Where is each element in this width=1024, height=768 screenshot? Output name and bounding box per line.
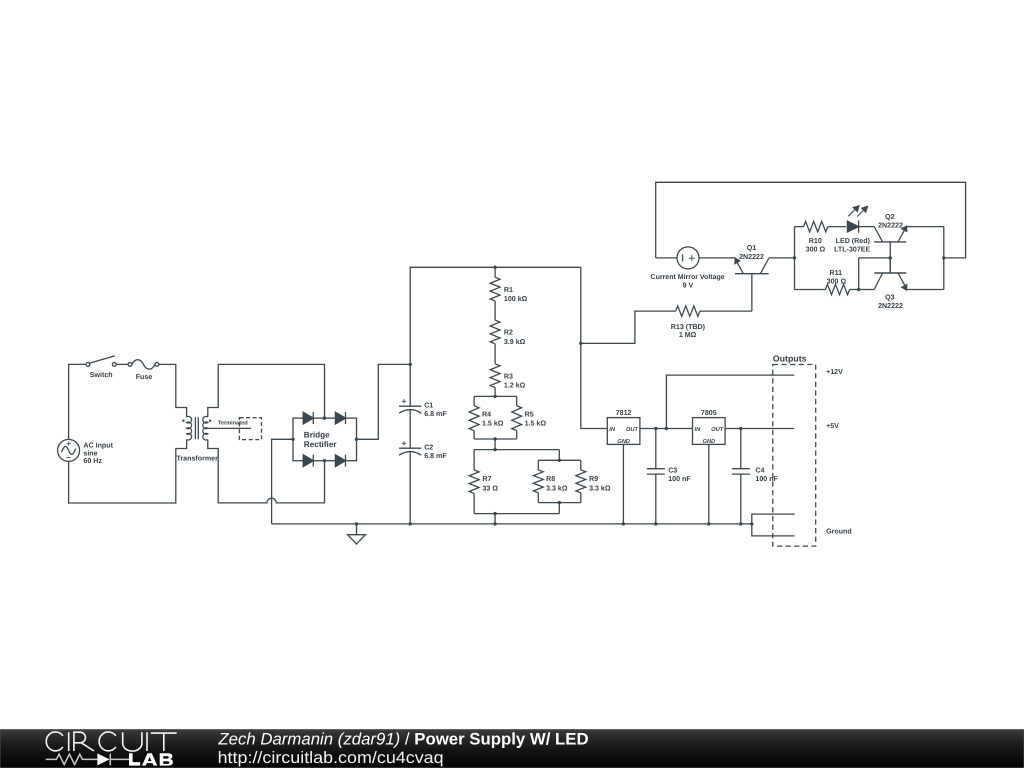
label R1 100 k bbox=[504, 286, 528, 303]
svg-text:1.5 kΩ: 1.5 kΩ bbox=[482, 420, 504, 428]
wire cap rail middle bbox=[409, 410, 411, 449]
svg-text:Fuse: Fuse bbox=[136, 373, 153, 381]
resistor R13 bbox=[676, 306, 700, 316]
label R11 300 bbox=[827, 269, 847, 286]
node bridge top bbox=[323, 416, 326, 419]
svg-text:R9: R9 bbox=[589, 475, 598, 483]
svg-text:+5V: +5V bbox=[826, 422, 839, 430]
label R2 3.9 k bbox=[504, 329, 526, 346]
LED arrows bbox=[848, 206, 867, 217]
wire R89 top edge bbox=[538, 459, 581, 461]
capacitor C2 bbox=[399, 441, 421, 455]
svg-text:3.9 kΩ: 3.9 kΩ bbox=[504, 338, 526, 346]
wire source left bbox=[656, 257, 677, 259]
svg-text:6.8 mF: 6.8 mF bbox=[424, 452, 447, 460]
node R89 top bbox=[558, 459, 561, 462]
node base join bbox=[889, 256, 892, 259]
node R89 bottom bbox=[558, 501, 561, 504]
svg-text:Outputs: Outputs bbox=[773, 354, 807, 364]
resistor R3 bbox=[490, 364, 500, 388]
label Fuse bbox=[136, 373, 153, 381]
svg-text:GND: GND bbox=[617, 439, 630, 445]
svg-text:100 nF: 100 nF bbox=[668, 475, 691, 483]
svg-text:GND: GND bbox=[702, 439, 715, 445]
label Q1 2N2222 bbox=[739, 244, 764, 261]
node C4 tap bbox=[739, 427, 742, 430]
svg-text:+12V: +12V bbox=[826, 368, 843, 376]
svg-text:100 nF: 100 nF bbox=[755, 475, 778, 483]
svg-text:Q3: Q3 bbox=[885, 293, 895, 301]
label R7 33 bbox=[482, 475, 498, 492]
node cap rail on ground rail bbox=[409, 522, 412, 525]
svg-text:R2: R2 bbox=[504, 329, 513, 337]
svg-text:Q2: Q2 bbox=[885, 213, 895, 221]
label Bridge Rectifier bbox=[304, 431, 338, 449]
node top rail R1 bbox=[493, 266, 496, 269]
transistor Q3 bbox=[874, 258, 907, 290]
wire mirror left rail bbox=[794, 227, 796, 290]
wire emitter rail bbox=[943, 227, 945, 290]
svg-text:R7: R7 bbox=[482, 475, 491, 483]
wire 7812 out to 7805 in bbox=[640, 428, 693, 430]
node C3 tap bbox=[654, 427, 657, 430]
bridge diode D2 bbox=[335, 412, 345, 424]
svg-text:1.2 kΩ: 1.2 kΩ bbox=[504, 382, 526, 390]
wire AC top to switch bbox=[69, 364, 86, 439]
svg-text:R3: R3 bbox=[504, 372, 513, 380]
svg-text:3.3 kΩ: 3.3 kΩ bbox=[546, 484, 568, 492]
fuse F1 bbox=[128, 360, 159, 369]
wire R11 to bases bbox=[859, 257, 891, 259]
wire R3 to node bbox=[494, 388, 496, 397]
node rail R7net bbox=[493, 522, 496, 525]
svg-text:IN: IN bbox=[695, 427, 702, 433]
svg-text:300 Ω: 300 Ω bbox=[827, 278, 847, 286]
svg-text:Terminated: Terminated bbox=[218, 419, 248, 426]
label R9 3.3 k bbox=[589, 475, 611, 492]
label R4 1.5 k bbox=[482, 410, 504, 427]
wire Q2 emitter bbox=[906, 226, 944, 228]
svg-text:C1: C1 bbox=[424, 401, 433, 409]
svg-text:300 Ω: 300 Ω bbox=[806, 246, 826, 254]
wire R2-R3 bbox=[494, 344, 496, 364]
svg-text:1 MΩ: 1 MΩ bbox=[679, 331, 697, 339]
wire 7812 gnd bbox=[622, 444, 624, 524]
svg-text:2N2222: 2N2222 bbox=[878, 302, 903, 310]
logo resistor-diode symbol bbox=[46, 754, 129, 766]
node emitter join bbox=[942, 256, 945, 259]
pin IN 7812 bbox=[609, 427, 616, 433]
transformer polarity dot secondary bbox=[209, 420, 211, 422]
label Ground bbox=[826, 528, 852, 536]
node 12V riser tap bbox=[665, 427, 668, 430]
node rail C4 bbox=[739, 522, 742, 525]
wire secondary bottom to bridge with hop bbox=[208, 440, 325, 503]
svg-text:OUT: OUT bbox=[626, 427, 639, 433]
outputs dashed box bbox=[773, 365, 816, 547]
resistor R8 bbox=[533, 460, 543, 502]
node bridge right bbox=[355, 438, 358, 441]
voltage source V2 current mirror bbox=[677, 247, 699, 269]
pin IN 7805 bbox=[695, 427, 702, 433]
label R10 300 bbox=[806, 237, 826, 254]
wire Q1 collector out bbox=[769, 257, 795, 259]
wire R1-R2 bbox=[494, 301, 496, 320]
svg-text:Transformer: Transformer bbox=[176, 455, 218, 463]
bridge diode D1 bbox=[303, 412, 313, 424]
switch SW1 bbox=[86, 356, 116, 366]
wire ground output fork bbox=[752, 514, 795, 536]
bridge rectifier outline bbox=[293, 418, 357, 461]
svg-text:R4: R4 bbox=[482, 410, 491, 418]
node R7 net top bbox=[493, 448, 496, 451]
svg-text:R10: R10 bbox=[809, 237, 822, 245]
node R13 branch bbox=[579, 342, 582, 345]
svg-text:7805: 7805 bbox=[701, 409, 717, 417]
svg-text:Current Mirror Voltage: Current Mirror Voltage bbox=[651, 273, 725, 281]
svg-text:9 V: 9 V bbox=[683, 282, 694, 290]
node rail end bbox=[750, 522, 753, 525]
capacitor C1 bbox=[399, 399, 421, 413]
svg-text:http://circuitlab.com/cu4cvaq: http://circuitlab.com/cu4cvaq bbox=[218, 749, 444, 767]
svg-text:AC Input: AC Input bbox=[83, 441, 113, 449]
label Switch bbox=[90, 371, 113, 379]
svg-text:R13 (TBD): R13 (TBD) bbox=[671, 323, 706, 331]
svg-text:Q1: Q1 bbox=[747, 244, 757, 252]
bridge diode D3 bbox=[303, 455, 313, 467]
svg-text:C3: C3 bbox=[668, 466, 677, 474]
transformer T1 secondary coil bbox=[203, 416, 208, 440]
svg-text:R8: R8 bbox=[546, 475, 555, 483]
svg-text:1.5 kΩ: 1.5 kΩ bbox=[525, 420, 547, 428]
svg-text:60 Hz: 60 Hz bbox=[83, 457, 102, 465]
logo LAB bbox=[129, 753, 173, 765]
svg-text:2N2222: 2N2222 bbox=[878, 222, 903, 230]
node R4R5 bottom bbox=[493, 437, 496, 440]
label C4 100 nF bbox=[755, 466, 778, 483]
svg-text:Bridge: Bridge bbox=[304, 431, 330, 440]
voltage source V1 AC Input bbox=[58, 439, 80, 461]
wire bridge left to ground rail bbox=[272, 439, 293, 524]
label AC Input sine 60 Hz bbox=[83, 441, 113, 465]
node R11 corner bbox=[857, 288, 860, 291]
svg-text:100 kΩ: 100 kΩ bbox=[504, 295, 528, 303]
label Outputs bbox=[773, 354, 807, 364]
regulator 7805 box bbox=[693, 418, 726, 445]
wire 12V output bbox=[666, 375, 794, 428]
wire fuse to transformer primary bbox=[159, 364, 187, 417]
wire R7net bottom bbox=[474, 513, 559, 515]
wire 7805 gnd bbox=[708, 444, 710, 524]
resistor R9 bbox=[576, 460, 586, 502]
resistor R11 bbox=[795, 284, 859, 294]
wire cap rail lower bbox=[409, 452, 411, 524]
svg-text:33 Ω: 33 Ω bbox=[482, 484, 498, 492]
resistor R2 bbox=[490, 320, 500, 344]
label 7805 bbox=[701, 409, 717, 417]
svg-text:Ground: Ground bbox=[826, 528, 852, 536]
label +5V bbox=[826, 422, 839, 430]
resistor R4 bbox=[469, 396, 479, 439]
label R13 TBD 1M bbox=[671, 323, 706, 339]
node R7net bottom bbox=[493, 512, 496, 515]
pin OUT 7805 bbox=[711, 427, 724, 433]
label C1 6.8 mF bbox=[424, 401, 447, 418]
label Current Mirror Voltage 9V bbox=[651, 273, 725, 289]
wire Q3 emitter bbox=[906, 289, 944, 291]
pin OUT 7812 bbox=[626, 427, 639, 433]
node rail 7805gnd bbox=[707, 522, 710, 525]
node rail C3 bbox=[654, 522, 657, 525]
wire source to Q1 bbox=[699, 257, 735, 259]
capacitor C3 bbox=[647, 429, 665, 524]
node rail ground sym bbox=[355, 522, 358, 525]
node mirror left bbox=[793, 256, 796, 259]
wire bridge right to cap rail bbox=[357, 364, 411, 439]
wire mirror loop top bbox=[656, 182, 966, 258]
pin GND 7805 bbox=[702, 439, 715, 445]
node rail 7812gnd bbox=[622, 522, 625, 525]
node bridge bottom bbox=[323, 459, 326, 462]
wire feed rail down bbox=[581, 267, 608, 428]
label LED Red LTL-307EE bbox=[834, 237, 870, 254]
svg-text:LTL-307EE: LTL-307EE bbox=[834, 246, 870, 254]
svg-text:6.8 mF: 6.8 mF bbox=[424, 410, 447, 418]
wire 7805 out to 5V bbox=[725, 428, 794, 430]
label 7812 bbox=[616, 409, 632, 417]
transistor Q1 bbox=[735, 258, 769, 311]
resistor R5 bbox=[512, 396, 522, 439]
label R8 3.3 k bbox=[546, 475, 568, 492]
node cap rail top feed bbox=[409, 363, 412, 366]
transistor Q2 bbox=[874, 226, 907, 273]
capacitor C4 bbox=[732, 429, 750, 524]
wire R11 to Q3 bbox=[859, 289, 875, 291]
svg-text:LED (Red): LED (Red) bbox=[836, 237, 871, 245]
wire R4R5 to R7 net bbox=[494, 439, 496, 450]
svg-text:R5: R5 bbox=[525, 410, 534, 418]
wire cap rail upper bbox=[410, 267, 581, 406]
LED D5 LTL-307EE bbox=[847, 220, 874, 232]
transformer polarity dot primary bbox=[182, 420, 184, 422]
wire R4R5 bottom bbox=[474, 438, 517, 440]
resistor R10 bbox=[795, 221, 847, 231]
regulator 7812 box bbox=[607, 418, 640, 445]
pin GND 7812 bbox=[617, 439, 630, 445]
label +12V bbox=[826, 368, 843, 376]
wire secondary top to bridge bbox=[208, 364, 325, 418]
wire R13 run bbox=[581, 311, 752, 343]
svg-text:R1: R1 bbox=[504, 286, 513, 294]
transformer T1 primary coil bbox=[187, 416, 192, 440]
terminated dashed box bbox=[239, 418, 261, 440]
svg-text:OUT: OUT bbox=[711, 427, 724, 433]
bridge diode D4 bbox=[335, 455, 345, 467]
footer bar bbox=[0, 730, 1024, 768]
label Terminated bbox=[218, 419, 248, 426]
ground symbol bbox=[348, 524, 366, 544]
label Q3 2N2222 bbox=[878, 293, 903, 310]
svg-text:Zech Darmanin (zdar91) / Power: Zech Darmanin (zdar91) / Power Supply W/… bbox=[217, 730, 588, 749]
wire R89 bottom edge bbox=[538, 502, 581, 504]
label C2 6.8 mF bbox=[424, 443, 447, 460]
label R3 1.2 k bbox=[504, 372, 526, 389]
svg-text:C2: C2 bbox=[424, 443, 433, 451]
svg-text:3.3 kΩ: 3.3 kΩ bbox=[589, 484, 611, 492]
label Q2 2N2222 bbox=[878, 213, 903, 229]
label R5 1.5 k bbox=[525, 410, 547, 427]
wire R7net top bbox=[474, 449, 559, 451]
svg-text:IN: IN bbox=[609, 427, 616, 433]
wire R89 feed bbox=[558, 450, 560, 461]
label C3 100 nF bbox=[668, 466, 691, 483]
CircuitLab logo CIRCUIT bbox=[46, 732, 176, 751]
svg-text:Rectifier: Rectifier bbox=[304, 440, 338, 449]
wire R89 to bottom bbox=[558, 503, 560, 514]
transformer T1 core bbox=[195, 417, 198, 439]
label Transformer bbox=[176, 455, 218, 463]
wire R11 up bbox=[858, 258, 860, 290]
wire R7net to rail bbox=[494, 514, 496, 524]
svg-text:Switch: Switch bbox=[90, 371, 113, 379]
resistor R7 bbox=[469, 450, 479, 514]
svg-text:7812: 7812 bbox=[616, 409, 632, 417]
wire switch to fuse bbox=[116, 363, 128, 365]
wire primary bottom loop bbox=[69, 440, 187, 504]
wire terminated tap bbox=[208, 427, 251, 429]
wire R4R5 top bbox=[474, 395, 517, 397]
svg-text:2N2222: 2N2222 bbox=[739, 253, 764, 261]
svg-text:C4: C4 bbox=[755, 466, 764, 474]
node bridge left bbox=[291, 438, 294, 441]
resistor R1 bbox=[490, 267, 500, 301]
svg-text:R11: R11 bbox=[829, 269, 842, 277]
wire main ground rail bbox=[272, 523, 752, 525]
node R3-R4R5 bbox=[493, 395, 496, 398]
